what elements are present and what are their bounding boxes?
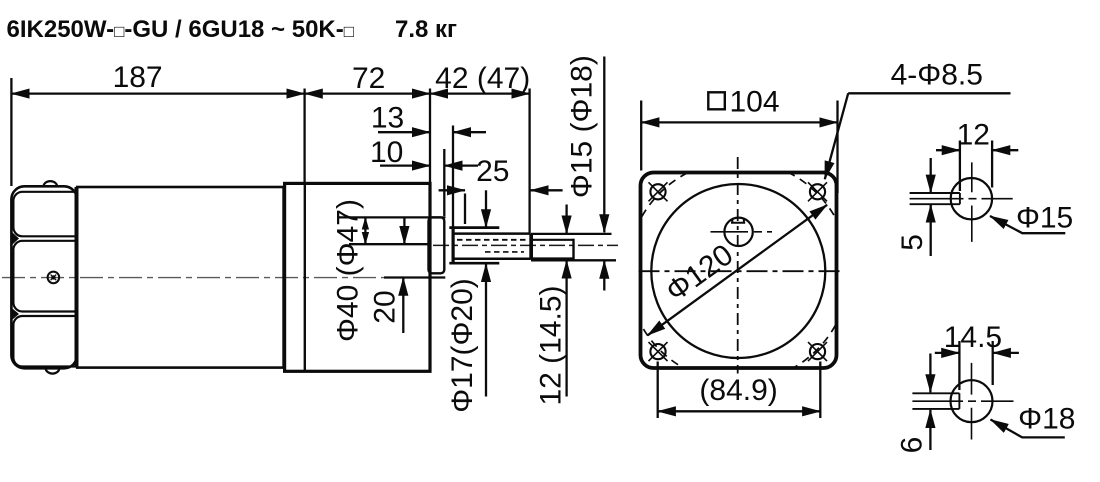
shaft keyway hidden line upper [457,239,528,241]
dim 84.9 right extension [819,362,821,419]
dim square104 square symbol [708,92,725,109]
svg-text:42 (47): 42 (47) [435,62,530,95]
motor centerline [2,277,384,279]
section phi18 centerline vertical [971,363,973,440]
svg-text:Φ15 (Φ18): Φ15 (Φ18) [565,55,598,198]
svg-text:7.8 кг: 7.8 кг [395,16,457,43]
dim square104 [641,121,837,123]
dim 10 right arrow [444,164,478,166]
extension line shaft start [452,126,454,229]
svg-text:Φ15: Φ15 [1016,202,1073,235]
front centerline vertical [737,157,739,374]
dim 10 left arrow [380,164,430,166]
cap bottom bump [46,368,60,373]
extension line boss top [338,216,446,218]
svg-text:(84.9): (84.9) [699,374,777,407]
dim 84.9 left extension [657,362,659,419]
svg-text:6IK250W-□-GU / 6GU18 ~ 50K-□: 6IK250W-□-GU / 6GU18 ~ 50K-□ [7,16,355,43]
dim 6 upper arrow [929,354,931,393]
label phi18 leader [991,420,1065,438]
extension line 20-dim lower (motor axis level) [384,276,445,278]
svg-text:Φ18: Φ18 [1018,402,1075,435]
cap notch upper [12,233,19,245]
extension line at gearbox face [429,89,431,183]
gear housing circle [651,184,825,358]
front shaft keyway [731,219,745,223]
section phi15 circle [951,178,992,219]
dim square104 left extension [640,101,642,171]
svg-text:104: 104 [730,86,780,119]
dim 12key left arrow [936,149,960,151]
extension line keyway start [464,194,466,225]
shaft phi15 top edge (key flat) [533,239,574,241]
dim phi17 upper arrow [485,190,487,227]
dim 20 upper arrow [403,218,405,244]
dim 6 lower arrow [929,410,931,450]
bolt hole bottom-right [808,342,827,361]
bolt hole top-right [808,182,827,201]
shaft phi15 bottom edge [531,257,574,259]
front centerline horizontal [639,270,842,272]
section phi18 centerline horizontal [912,400,1013,402]
gearbox flange separation line [304,183,306,371]
bolt hole bottom-left [649,342,668,361]
shaft tip face [572,239,574,260]
cap screw circle [48,272,60,284]
dim phi120 [648,205,828,335]
dim 187 left extension [10,78,12,186]
dim 5 upper arrow [930,158,932,193]
dim 12(14.5) upper arrow [565,205,567,234]
svg-text:Φ40 (Φ47): Φ40 (Φ47) [331,199,364,342]
label phi15 leader [990,216,1065,233]
cap face edge line [75,187,78,368]
front shaft cross line [711,231,773,233]
dim 72 [305,92,430,94]
dim 84.9 [658,410,821,412]
gear shaft centerline [433,244,618,246]
gearbox housing [285,183,430,371]
section phi15 centerline horizontal [910,198,1013,200]
motor rear cap [11,186,77,368]
svg-text:12: 12 [957,119,990,152]
dim phi18 upper arrow [603,57,605,233]
svg-text:10: 10 [370,136,403,169]
extension line phi15 top [531,233,612,235]
svg-text:20: 20 [368,290,401,323]
dim 25 left arrow [439,189,465,191]
cap screw cross [51,275,57,281]
dim phi17 lower arrow [485,264,487,397]
section phi18 circle [951,380,993,422]
cap window 2 [13,241,76,312]
dim 14.5 right arrow [993,352,1019,354]
dim phi40 arrow line [364,217,366,244]
shaft phi17 bottom edge [453,258,531,261]
svg-text:72: 72 [352,62,385,95]
shaft phi20 top edge [449,226,499,229]
shaft phi17 top edge [453,232,531,235]
dim 14.5 right extension [992,341,994,385]
dim 14.5 left extension [958,341,960,390]
extension line phi15 bottom [531,259,616,261]
dim 12key right arrow [992,149,1018,151]
bolt hole top-left [649,182,668,201]
section phi15 centerline vertical [971,162,973,242]
dim 25 right arrow [530,189,562,191]
label 4-phi8.5 underline [848,92,1010,94]
shaft step face [529,234,533,260]
svg-text:187: 187 [113,61,163,94]
front shaft circle [724,218,752,246]
dim 13 left arrow [378,131,430,133]
section phi15 keyway [910,193,960,204]
dim 5 lower arrow [930,205,932,257]
dim 187 [11,92,304,94]
cap top bump [44,181,58,186]
shaft root face [452,226,455,264]
cap window 1 [13,192,76,237]
label 4-phi8.5 leader [825,93,848,179]
shaft phi20 bottom edge [449,262,499,265]
extension line boss face [443,149,445,216]
cap notch lower [12,309,19,320]
svg-text:12 (14.5): 12 (14.5) [534,285,567,405]
dim square104 right extension [836,101,838,194]
dim 12(14.5) lower arrow [565,260,567,396]
svg-text:6: 6 [896,437,929,454]
extension line at flange [303,89,305,183]
extension line at shaft step [528,89,530,234]
motor body [77,187,283,368]
dim 20 lower arrow [402,278,404,333]
dim 12key right extension [991,141,993,188]
dim 42(47) [430,92,530,94]
svg-text:13: 13 [371,102,404,135]
extension line gear axis [349,243,429,245]
svg-text:5: 5 [896,234,929,251]
bolt circle (dashed) [627,161,849,383]
flange square [641,173,837,369]
dim 13 right arrow [453,131,486,133]
dim phi18 lower arrow [603,261,605,291]
section phi18 keyway [912,393,959,409]
svg-text:25: 25 [476,155,509,188]
cap window 3 [13,316,76,367]
svg-text:4-Φ8.5: 4-Φ8.5 [891,59,983,92]
dim 14.5 left arrow [935,352,960,354]
output boss [429,217,445,273]
svg-text:Φ17(Φ20): Φ17(Φ20) [446,278,479,413]
cap screw center dot [51,275,55,279]
dim 12key left extension [959,141,961,192]
shaft keyway hidden line lower [485,251,524,253]
